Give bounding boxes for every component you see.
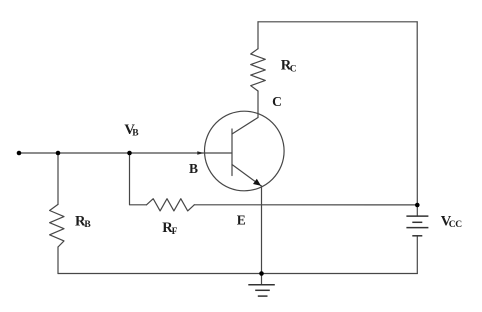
svg-text:C: C <box>290 64 297 74</box>
resistor R_C zigzag <box>251 49 266 91</box>
svg-text:B: B <box>132 128 139 138</box>
wire: R_B top lead <box>57 153 59 204</box>
resistor R_F zigzag <box>147 199 195 211</box>
svg-text:C: C <box>272 94 282 109</box>
svg-text:B: B <box>189 161 198 176</box>
node: input terminal dot <box>17 151 22 156</box>
wire: base wire from input to transistor base bar <box>19 152 232 154</box>
svg-text:F: F <box>172 227 178 237</box>
wire: battery top lead <box>416 205 418 216</box>
wire: ground stem <box>261 274 263 285</box>
wire: right rail down to battery <box>416 22 418 205</box>
wire: battery bottom lead <box>416 236 418 274</box>
wire: top rail <box>258 21 417 23</box>
wire: emitter vertical wire to ground rail <box>261 186 263 274</box>
svg-text:B: B <box>84 220 91 230</box>
transistor Q1 emitter arrowhead <box>253 179 261 186</box>
ground symbol <box>248 285 274 296</box>
resistor R_B zigzag <box>50 204 64 247</box>
base wire arrowhead <box>197 151 203 155</box>
node: battery junction dot <box>415 203 420 208</box>
svg-text:E: E <box>237 213 246 228</box>
node: V_B junction dot at R_F branch <box>127 151 132 156</box>
wire: R_C top lead <box>257 22 259 49</box>
transistor Q1 circle <box>205 111 285 191</box>
node: ground junction dot <box>259 271 264 276</box>
battery V_CC plates <box>406 216 428 236</box>
transistor Q1 emitter stroke <box>232 165 261 186</box>
transistor Q1 (NPN) <box>205 111 285 191</box>
wire: collector lead from transistor to R_C <box>257 91 259 118</box>
transistor Q1 base bar <box>231 129 233 176</box>
wire: feedback/emitter line to battery positive <box>194 204 417 206</box>
svg-text:CC: CC <box>449 220 463 230</box>
wire: R_B bottom lead <box>57 247 59 274</box>
wire: bottom ground rail <box>58 273 417 275</box>
wire: R_F vertical lead from V_B node <box>130 153 147 205</box>
transistor Q1 collector stroke <box>232 118 258 135</box>
node: V_B junction dot at R_B branch <box>56 151 61 156</box>
